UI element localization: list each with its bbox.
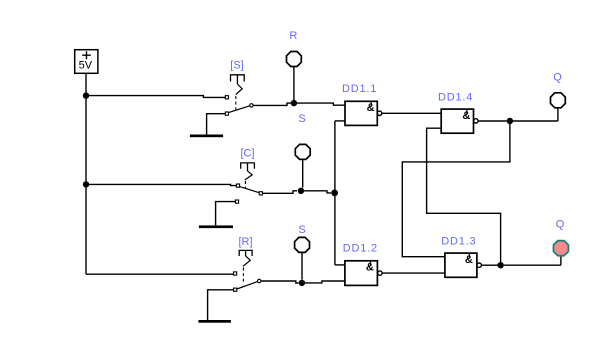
switch C dashed control line [244,181,246,189]
svg-text:[S]: [S] [230,60,243,72]
switch C lower throw contact [235,200,238,203]
battery V1 box [75,50,98,74]
wire battery vertical bus [85,74,87,275]
svg-text:5V: 5V [79,59,93,71]
battery V1 plus sign [82,51,91,59]
node Q junction [507,118,513,124]
wire row3 +5V to switch R [86,273,233,275]
wire row1 +5V to switch S [86,96,225,98]
node C2 junction [331,190,338,197]
switch S pole contact [250,104,253,107]
wire DD1.4 input 2 to node Qb [427,128,501,262]
gate DD1.2 body [345,261,378,286]
wire switch S pole to node R [253,103,291,105]
wire C vertical to gates [334,121,336,265]
switch R dashed control line [242,268,244,282]
switch S upper throw contact [225,96,228,99]
probe S lamp (row3) [295,237,310,252]
ground under switch C [199,225,233,228]
wire switch C lower throw to ground [216,202,236,226]
wire DD1.1 output to DD1.4 input 1 [382,112,441,114]
svg-text:S: S [298,113,305,125]
gate DD1.3 body [445,253,477,277]
wire C to DD1.2 input 1 [335,264,345,266]
svg-text:R: R [289,30,297,42]
wire probe R stem [293,67,295,100]
wire probe Qb stem [560,256,562,265]
node S2 junction [299,280,305,286]
svg-text:S: S [298,224,305,236]
wire probe S stem (row3) [301,253,303,280]
switch S key cap [231,75,245,84]
gate DD1.1 output bubble [377,111,381,115]
node battery-row2 junction [83,181,89,187]
switch S lever [229,106,250,113]
svg-text:DD1.4: DD1.4 [438,91,473,103]
switch R lower throw contact [234,288,237,291]
wire row2 +5V to switch C [86,184,236,185]
switch C pole contact [259,192,262,195]
probe S lamp (row2) [295,144,310,159]
ground under switch S [190,135,223,138]
switch S lower throw contact [225,112,228,115]
switch S dashed control line [235,96,237,110]
wire node Qb to probe Qb [504,264,561,266]
switch C lever [240,187,259,193]
ground under switch R [198,320,231,323]
node battery-row1 junction [83,92,89,98]
wire switch S lower throw to ground [207,114,226,135]
svg-text:DD1.3: DD1.3 [441,235,476,247]
wire node S to node C2 [304,191,331,193]
switch C key cap [241,163,255,171]
gate DD1.3 output bubble [477,263,481,267]
probe Q lamp [551,93,566,108]
wire probe S stem (row2) [302,160,304,188]
svg-text:Q: Q [553,72,562,84]
svg-text:Q: Q [556,219,565,231]
gate DD1.4 output bubble [474,119,478,123]
switch R zigzag [243,256,250,266]
node S junction [298,188,304,194]
gate DD1.2 output bubble [378,271,382,275]
wire DD1.3 output to node Qb [482,264,498,266]
switch R pole contact [258,279,261,282]
svg-text:[R]: [R] [238,236,252,248]
switch R upper throw contact [234,272,237,275]
probe Qb lamp (lit) [554,241,569,256]
switch C upper throw contact [236,184,239,187]
wire node Q to probe Q [513,120,558,122]
wire node R to DD1.1 input 1 [297,103,345,105]
switch R lever [237,282,258,289]
node Qb junction [497,262,503,268]
svg-text:DD1.2: DD1.2 [343,242,378,254]
wire switch C pole to node S [263,191,297,194]
wire probe Q stem [557,108,559,121]
gate DD1.1 body [345,101,377,125]
probe R lamp [287,52,302,67]
wire switch R pole to node S2 [261,281,299,283]
gate DD1.4 body [441,109,473,133]
wire node S2 to DD1.2 input 2 [305,281,345,283]
wire DD1.4 output to node Q [478,120,507,122]
node R junction [291,100,297,106]
switch C zigzag [245,171,252,180]
wire C to DD1.1 input 2 [335,120,345,122]
wire DD1.2 output to DD1.3 input 2 [382,272,445,274]
switch S zigzag [236,84,242,95]
wire node Q to DD1.3 input 1 [402,121,510,257]
svg-text:DD1.1: DD1.1 [342,83,377,95]
svg-text:[C]: [C] [240,148,254,160]
switch R key cap [239,250,252,256]
wire switch R lower throw to ground [208,290,234,320]
